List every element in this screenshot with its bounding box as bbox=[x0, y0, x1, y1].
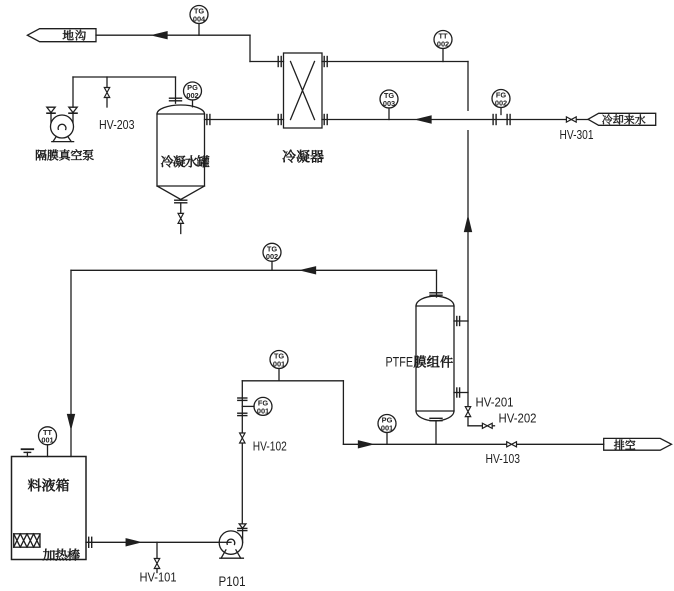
flow arrow right on suction line bbox=[126, 539, 140, 546]
svg-text:HV-301: HV-301 bbox=[560, 127, 594, 142]
instrument TT-001 bbox=[39, 427, 57, 445]
wire PG-002 tap bbox=[192, 100, 194, 107]
wire tank drain upper bbox=[180, 203, 182, 214]
svg-text:002: 002 bbox=[437, 39, 449, 48]
flow arrow right on feed line bbox=[359, 441, 373, 448]
flow arrow up on vapor riser bbox=[465, 218, 472, 232]
wire TT-001 tap bbox=[47, 445, 49, 457]
label 地沟 bbox=[63, 30, 86, 41]
valve tank drain bbox=[178, 213, 183, 223]
wire condenser top-right header bbox=[322, 61, 468, 63]
valve HV-103 bbox=[507, 442, 517, 447]
flow arrow left on cooling line bbox=[417, 116, 431, 123]
wire membrane upper side nozzle bbox=[454, 320, 468, 322]
wire discharge drop bbox=[342, 381, 344, 445]
instrument TG-003 bbox=[380, 90, 398, 108]
pump P101 bbox=[219, 531, 243, 558]
valve HV-102 bbox=[240, 433, 245, 443]
flange membrane upper side bbox=[457, 317, 460, 326]
flange pair cooling line right bbox=[507, 115, 510, 125]
label 隔膜真空泵 bbox=[36, 149, 94, 160]
svg-text:001: 001 bbox=[381, 423, 393, 432]
svg-text:001: 001 bbox=[257, 406, 269, 415]
wire pump discharge stub bbox=[242, 528, 244, 542]
wire feed line to membrane and vent bbox=[343, 443, 603, 445]
wire below HV-201 bbox=[467, 417, 469, 426]
wire TG-004 tap bbox=[198, 24, 200, 36]
svg-text:003: 003 bbox=[383, 99, 395, 108]
instrument TG-004 bbox=[190, 6, 208, 24]
valve HV-203 bbox=[104, 88, 109, 98]
wire retentate return header bbox=[71, 269, 437, 271]
check valve at P101 discharge bbox=[239, 524, 246, 528]
label 冷却来水 bbox=[602, 114, 645, 124]
instrument FG-001 bbox=[254, 397, 272, 415]
wire membrane bottom to feed line bbox=[435, 421, 437, 444]
wire FG-001 tap bbox=[242, 405, 254, 407]
svg-text:002: 002 bbox=[186, 91, 198, 100]
flange at check valve bbox=[238, 528, 247, 530]
pump inlet port left bbox=[47, 107, 55, 122]
wire tank to condenser bottom-left bbox=[205, 119, 284, 121]
svg-text:002: 002 bbox=[266, 252, 278, 261]
wire pump riser bbox=[241, 381, 243, 524]
svg-text:HV-202: HV-202 bbox=[499, 411, 537, 426]
PTFE membrane module 膜组件 body bbox=[416, 296, 454, 421]
wire feed tank to P101 suction bbox=[86, 541, 219, 543]
svg-text:HV-102: HV-102 bbox=[253, 439, 287, 454]
svg-text:HV-101: HV-101 bbox=[140, 569, 177, 584]
valve HV-201 bbox=[465, 407, 470, 417]
wire HV-203 stub bbox=[106, 77, 108, 88]
svg-text:004: 004 bbox=[193, 14, 206, 23]
flange pump riser lower bbox=[238, 413, 247, 415]
heater 加热棒 element bbox=[14, 534, 40, 547]
wire condenser top-left bbox=[250, 61, 284, 63]
flange tank top nozzle bbox=[170, 98, 182, 101]
pump inlet port right bbox=[69, 107, 77, 122]
wire TT-002 tap bbox=[442, 49, 444, 62]
wire drop to condenser bbox=[249, 35, 251, 61]
flange condenser bottom-left nozzle bbox=[278, 115, 281, 125]
wire suction into pump bbox=[219, 541, 231, 543]
wire pump suction drop bbox=[72, 77, 74, 107]
flow arrow left on drain header bbox=[153, 32, 167, 39]
svg-text:P101: P101 bbox=[219, 573, 246, 589]
svg-text:001: 001 bbox=[41, 436, 53, 445]
instrument PG-001 bbox=[378, 415, 396, 433]
flow arrow left on return header bbox=[302, 267, 316, 274]
wire pump suction header bbox=[73, 76, 176, 78]
flange membrane lower side bbox=[457, 388, 460, 397]
flange pair cooling line left bbox=[493, 115, 496, 125]
valve HV-202 bbox=[482, 423, 492, 428]
wire HV-203 outlet bbox=[106, 98, 108, 108]
label 冷凝器 bbox=[283, 150, 324, 163]
wire HV-101 outlet bbox=[156, 569, 158, 573]
wire vapor riser upper bbox=[467, 62, 469, 111]
flag 排空 (vent) bbox=[604, 438, 672, 450]
valve HV-301 bbox=[566, 117, 576, 122]
instrument TG-002 bbox=[263, 243, 281, 261]
svg-text:001: 001 bbox=[273, 359, 285, 368]
wire TG-002 tap bbox=[271, 261, 273, 270]
wire return drop to feed tank bbox=[70, 270, 72, 456]
svg-text:HV-201: HV-201 bbox=[476, 394, 514, 409]
flag 地沟 (drain) bbox=[27, 29, 96, 42]
flange tank drain nozzle bbox=[175, 200, 187, 203]
instrument TG-001 bbox=[270, 351, 288, 369]
wire vapor riser lower (hops cooling line) bbox=[467, 131, 469, 407]
flange condenser top-left nozzle bbox=[278, 57, 281, 67]
condensate tank 冷凝水罐 body bbox=[157, 105, 205, 200]
svg-text:HV-203: HV-203 bbox=[99, 117, 135, 132]
label 排空 bbox=[614, 440, 635, 450]
wire tank top nozzle bbox=[175, 77, 177, 103]
wire drop to membrane top bbox=[436, 270, 438, 297]
svg-text:002: 002 bbox=[495, 98, 507, 107]
svg-text:HV-103: HV-103 bbox=[486, 451, 521, 466]
wire drain header bbox=[96, 34, 250, 36]
wire TG-001 tap bbox=[278, 369, 280, 381]
feed tank 料液箱 body bbox=[12, 457, 87, 560]
feed tank vent cap bbox=[22, 449, 34, 456]
instrument PG-002 bbox=[184, 82, 202, 100]
flange feed tank outlet bbox=[89, 537, 92, 547]
label 料液箱 bbox=[28, 478, 69, 491]
condenser 冷凝器 body bbox=[284, 53, 323, 128]
instrument TT-002 bbox=[434, 31, 452, 49]
flange pump riser upper bbox=[238, 398, 247, 400]
svg-text:PTFE: PTFE bbox=[386, 355, 414, 370]
flow arrow down into feed tank bbox=[68, 415, 75, 429]
wire tank drain outlet bbox=[180, 223, 182, 233]
instrument FG-002 bbox=[492, 90, 510, 108]
flag 冷却来水 (cooling water supply) bbox=[588, 113, 656, 125]
valve HV-101 bbox=[154, 559, 159, 569]
label 加热棒 bbox=[43, 549, 80, 561]
wire PG-001 tap bbox=[386, 433, 388, 445]
flange tank side nozzle bbox=[207, 115, 210, 125]
flange condenser bottom-right nozzle bbox=[324, 115, 327, 125]
flange membrane top nozzle bbox=[430, 293, 442, 295]
wire TG-003 tap bbox=[388, 108, 390, 120]
wire to HV-202 bbox=[468, 425, 482, 427]
flange membrane bottom nozzle bbox=[430, 418, 442, 420]
wire pump discharge header bbox=[242, 380, 343, 382]
wire FG-002 tap bbox=[500, 108, 502, 115]
wire HV-202 outlet stub bbox=[492, 425, 494, 427]
wire cooling water line bbox=[322, 119, 588, 121]
wire HV-101 stub bbox=[156, 542, 158, 558]
flange condenser top-right nozzle bbox=[324, 57, 327, 67]
diaphragm vacuum pump 隔膜真空泵 bbox=[51, 115, 74, 142]
label 冷凝水罐 bbox=[161, 155, 209, 167]
wire membrane lower side nozzle bbox=[454, 392, 468, 394]
